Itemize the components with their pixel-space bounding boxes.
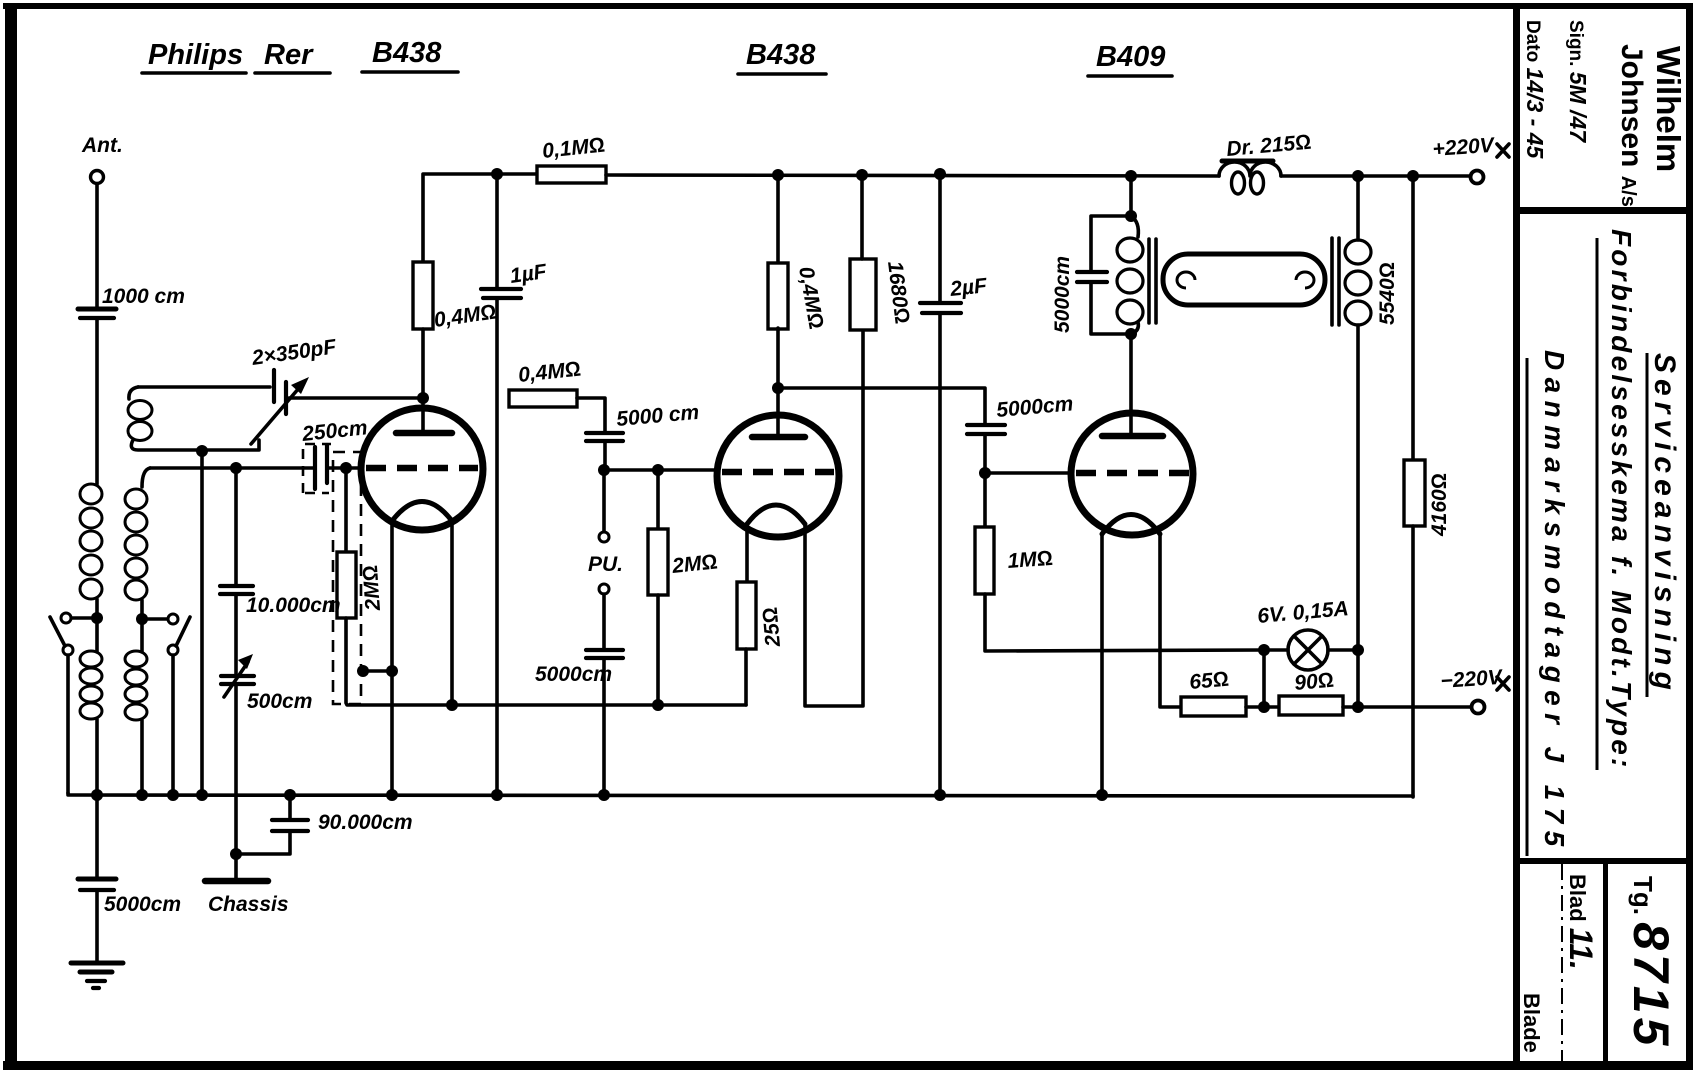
svg-text:B409: B409	[1096, 41, 1165, 73]
svg-text:5000cm: 5000cm	[1051, 256, 1074, 333]
svg-text:Blade: Blade	[1519, 993, 1544, 1053]
svg-text:1MΩ: 1MΩ	[1007, 547, 1054, 573]
svg-text:B438: B438	[746, 39, 816, 71]
svg-text:B438: B438	[372, 37, 442, 69]
svg-text:Wilhelm: Wilhelm	[1650, 46, 1687, 172]
svg-text:Serviceanvisning: Serviceanvisning	[1648, 353, 1681, 696]
svg-text:5000cm: 5000cm	[104, 893, 181, 916]
svg-text:1000 cm: 1000 cm	[102, 285, 185, 308]
svg-text:−220V: −220V	[1440, 666, 1505, 693]
svg-text:+220V: +220V	[1432, 134, 1497, 161]
svg-text:5540Ω: 5540Ω	[1376, 262, 1399, 325]
svg-text:25Ω: 25Ω	[759, 606, 785, 648]
svg-text:Chassis: Chassis	[208, 893, 289, 916]
svg-text:90Ω: 90Ω	[1293, 669, 1334, 695]
svg-text:2µF: 2µF	[948, 274, 989, 301]
svg-text:Ant.: Ant.	[81, 134, 123, 157]
svg-text:Danmarksmodtager J 175: Danmarksmodtager J 175	[1539, 350, 1570, 854]
svg-text:90.000cm: 90.000cm	[318, 811, 413, 834]
svg-text:PU.: PU.	[588, 553, 623, 576]
svg-text:4160Ω: 4160Ω	[1428, 473, 1451, 537]
svg-text:500cm: 500cm	[247, 690, 312, 713]
svg-text:5000cm: 5000cm	[535, 663, 612, 686]
svg-text:Philips: Philips	[148, 39, 243, 71]
svg-text:Forbindelsesskema f. Modt.Type: Forbindelsesskema f. Modt.Type:	[1606, 229, 1637, 771]
svg-text:65Ω: 65Ω	[1188, 668, 1229, 694]
svg-text:2MΩ: 2MΩ	[670, 550, 718, 578]
svg-text:2MΩ: 2MΩ	[359, 564, 385, 612]
svg-text:Rer: Rer	[264, 39, 314, 71]
svg-text:10.000cm: 10.000cm	[246, 594, 341, 617]
